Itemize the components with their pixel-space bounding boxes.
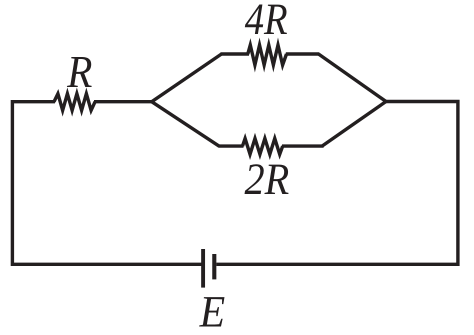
wire: resistor R to node A	[94, 100, 153, 103]
wire: top branch, right segment	[286, 52, 320, 55]
label E	[199, 287, 226, 335]
label 2R	[244, 154, 289, 204]
svg-text:E: E	[199, 287, 226, 335]
battery E: long plate	[201, 249, 205, 288]
wire: node B to top-right corner, right vertical side, bottom run to battery right plate	[216, 102, 458, 265]
label R	[66, 46, 92, 97]
wire: bottom branch, right segment	[282, 144, 324, 147]
battery E: short plate	[212, 254, 216, 279]
wire: bottom branch, left segment	[218, 144, 243, 147]
resistor 4R	[248, 45, 287, 65]
resistor R	[54, 94, 95, 111]
node B (right junction) diagonals from both branches	[319, 54, 387, 146]
svg-text:2R: 2R	[244, 154, 289, 204]
wire: top branch, left segment	[221, 52, 250, 55]
svg-text:4R: 4R	[245, 0, 288, 44]
svg-text:R: R	[66, 46, 92, 97]
node A (left junction) diagonals to both branches	[152, 54, 222, 146]
resistor 2R	[243, 139, 283, 155]
label 4R	[245, 0, 288, 44]
wire: top-left corner, left vertical side, bottom run to battery left plate	[12, 102, 201, 265]
